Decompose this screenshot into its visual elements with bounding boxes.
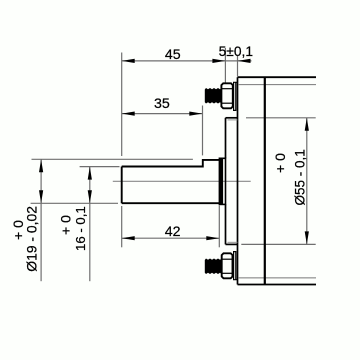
svg-text:Ø55 - 0,1: Ø55 - 0,1 <box>292 149 307 205</box>
svg-text:45: 45 <box>165 47 181 63</box>
svg-text:5±0,1: 5±0,1 <box>219 44 253 59</box>
svg-text:+ 0: + 0 <box>10 220 26 240</box>
svg-text:16 - 0,1: 16 - 0,1 <box>73 206 88 251</box>
svg-text:+ 0: + 0 <box>58 215 74 235</box>
svg-text:+ 0: + 0 <box>272 153 288 173</box>
svg-text:Ø19 - 0,02: Ø19 - 0,02 <box>24 206 40 272</box>
svg-text:42: 42 <box>165 224 181 240</box>
svg-text:35: 35 <box>154 96 170 112</box>
